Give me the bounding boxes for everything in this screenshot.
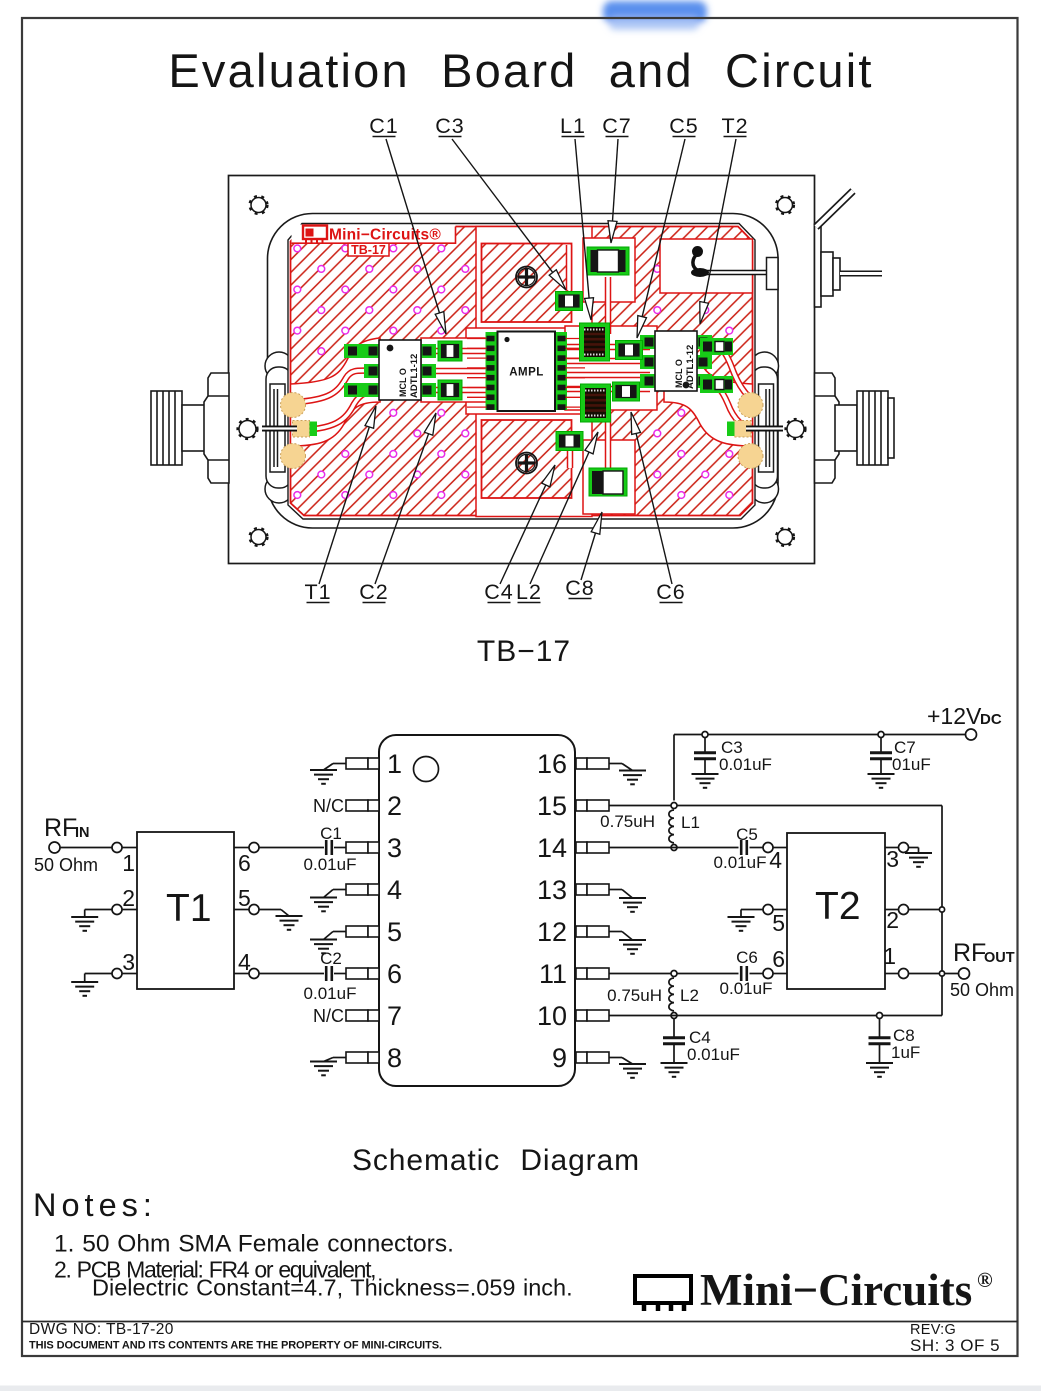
centre pin left	[262, 426, 297, 432]
svg-text:DWG NO: TB-17-20: DWG NO: TB-17-20	[29, 1321, 174, 1338]
wire gnd diag r	[622, 890, 633, 899]
node C3	[702, 732, 708, 738]
wire C6-T2	[750, 973, 763, 975]
svg-text:Dielectric Constant=4.7, Thick: Dielectric Constant=4.7, Thickness=.059 …	[92, 1275, 573, 1301]
svg-text:C1: C1	[320, 824, 342, 843]
svg-text:Mini−Circuits®: Mini−Circuits®	[329, 227, 441, 244]
wire pin gnd stub r	[609, 763, 622, 765]
label L2	[516, 580, 542, 604]
svg-text:C7: C7	[602, 114, 631, 138]
copper pour (hatched)	[291, 227, 753, 516]
trace AMPL-T2 4	[565, 386, 650, 393]
transformer T2	[787, 833, 885, 989]
trace RF out lower	[703, 381, 753, 430]
wire T2 pin3 gnd	[909, 847, 919, 849]
svg-text:C6: C6	[736, 948, 758, 967]
svg-text:3: 3	[387, 833, 402, 863]
ground U1 left	[310, 898, 337, 912]
wire gnd diag	[324, 932, 334, 940]
label C8	[565, 576, 594, 600]
svg-text:01uF: 01uF	[892, 755, 931, 774]
svg-text:Evaluation Board and Circuit: Evaluation Board and Circuit	[168, 44, 873, 97]
capacitor C2	[326, 966, 332, 981]
leader L2	[530, 432, 598, 584]
transformer T1	[137, 832, 234, 989]
screw hole bottom-right	[776, 528, 794, 546]
wire pin15	[609, 805, 942, 807]
svg-text:AMPL: AMPL	[509, 367, 544, 379]
svg-text:1: 1	[122, 850, 135, 876]
trace RF in lower	[295, 390, 380, 430]
svg-text:L1: L1	[560, 114, 586, 138]
pour cutout top-center	[476, 227, 592, 334]
svg-text:C6: C6	[656, 580, 685, 604]
svg-text:T1: T1	[304, 580, 331, 604]
trace C7 feed	[605, 277, 612, 334]
wire gnd diag r	[622, 764, 633, 771]
screw hole bottom-left	[250, 528, 268, 546]
pour cutout around C8	[583, 440, 635, 514]
schematic diagram	[34, 703, 1015, 1086]
svg-text:0.75uH: 0.75uH	[607, 986, 662, 1005]
wire pin10 bus	[609, 1015, 942, 1017]
case outline	[229, 176, 815, 564]
svg-text:RF: RF	[44, 814, 77, 842]
svg-text:4: 4	[387, 875, 402, 905]
T2 pin4 circle	[763, 843, 773, 853]
wire T2 pin1-RFout	[909, 973, 959, 975]
wire gnd drop2	[84, 974, 86, 983]
svg-text:3: 3	[122, 949, 135, 975]
svg-text:DC: DC	[980, 711, 1002, 728]
label C3	[435, 114, 464, 138]
T2 pin5 circle	[763, 905, 773, 915]
capacitor C4	[663, 1019, 685, 1064]
trace AMPL-T2 3	[565, 372, 650, 379]
wire gnd diag r	[622, 932, 633, 941]
leader C3	[452, 139, 566, 290]
milled pocket	[268, 214, 779, 529]
svg-text:3: 3	[886, 846, 899, 872]
amplifier U1 pins	[487, 336, 566, 410]
leader C8	[581, 512, 602, 580]
svg-text:Notes:: Notes:	[33, 1187, 157, 1223]
trace T1 top pad stub	[352, 348, 369, 355]
screw hole top-left	[250, 196, 268, 214]
svg-text:T2: T2	[721, 114, 748, 138]
launch pads right	[727, 393, 763, 469]
wire T2 pin5	[773, 909, 787, 911]
wire gnd drop	[84, 910, 86, 918]
ground U1 right	[619, 771, 646, 785]
mounting screw top	[516, 267, 537, 288]
svg-text:N/C: N/C	[313, 796, 344, 816]
node L1 bottom	[671, 845, 677, 851]
U1 pin numbers	[387, 749, 567, 1073]
capacitor C6 (PCB)	[613, 382, 640, 401]
ground U1 right	[619, 1064, 646, 1078]
ground T2 pin3	[905, 853, 932, 867]
leader T2	[700, 139, 736, 324]
svg-text:Mini−Circuits: Mini−Circuits	[700, 1265, 972, 1315]
capacitor C1 (PCB)	[438, 341, 462, 361]
trace C8 feed	[605, 412, 612, 468]
wire T1 pin2 gnd	[85, 909, 112, 911]
connector flange right	[751, 352, 779, 503]
label T1	[304, 580, 331, 604]
ground C8	[866, 1063, 893, 1077]
svg-text:TB-17: TB-17	[351, 243, 386, 257]
T2 pin1 circle	[899, 969, 909, 979]
node bus pin1	[939, 971, 944, 976]
ground C7	[868, 774, 895, 788]
ground U1 left	[310, 940, 337, 954]
svg-text:0.01uF: 0.01uF	[719, 755, 772, 774]
connector flange left	[265, 352, 293, 503]
mounting screw bottom	[516, 453, 537, 474]
svg-text:TB−17: TB−17	[477, 635, 571, 668]
svg-text:10: 10	[537, 1001, 567, 1031]
wire T1 pin5	[234, 909, 249, 911]
wire T1 pin6	[234, 847, 249, 849]
label C6	[656, 580, 685, 604]
wire T2 pin2	[885, 909, 899, 911]
svg-text:1: 1	[387, 749, 402, 779]
capacitor C5 (PCB)	[616, 341, 643, 360]
screw hole mid-left	[238, 419, 258, 439]
T1 pin6 circle	[249, 843, 259, 853]
screw hole mid-right	[786, 419, 806, 439]
svg-text:C5: C5	[736, 825, 758, 844]
capacitor C3 (PCB)	[556, 292, 583, 311]
Mini-Circuits silkscreen logo	[303, 226, 327, 245]
wire T2 pin3 drop	[918, 848, 920, 854]
svg-text:8: 8	[387, 1043, 402, 1073]
capacitor C2 (PCB)	[438, 380, 462, 400]
screw hole top-right	[776, 196, 794, 214]
svg-text:1. 50 Ohm SMA Female connector: 1. 50 Ohm SMA Female connectors.	[54, 1231, 454, 1258]
ground U1 left	[310, 770, 337, 784]
svg-text:6: 6	[772, 946, 785, 972]
wire T1 pin1	[122, 847, 137, 849]
centre pin right	[746, 426, 783, 432]
node C8	[877, 1013, 883, 1019]
wire gnd diag	[324, 764, 334, 771]
svg-text:15: 15	[537, 791, 567, 821]
node L2 top	[671, 971, 677, 977]
inductor L2 (PCB)	[581, 384, 611, 422]
svg-text:ADTL1-12: ADTL1-12	[409, 354, 420, 398]
T2 pin6 circle	[763, 969, 773, 979]
pad right of T2 lower	[700, 376, 733, 393]
wire T1 pin3 gnd	[85, 973, 112, 975]
svg-text:N/C: N/C	[313, 1006, 344, 1026]
svg-text:2: 2	[886, 907, 899, 933]
bottom bar	[0, 1386, 1041, 1391]
wire T2 gnd drop	[740, 910, 742, 918]
wire gnd diag	[281, 910, 289, 917]
wire gnd diag	[324, 890, 334, 898]
svg-text:C2: C2	[320, 949, 342, 968]
svg-text:Schematic Diagram: Schematic Diagram	[352, 1144, 640, 1177]
ground T2 pin5	[728, 917, 755, 931]
wire pin11-C6	[609, 973, 739, 975]
svg-text:T1: T1	[166, 887, 212, 930]
wire C2-pin6	[334, 973, 346, 975]
wire rail to L1	[673, 735, 675, 801]
launch pads left	[281, 393, 318, 469]
capacitor C5	[741, 840, 747, 855]
DC terminal	[815, 191, 883, 307]
capacitor C3	[694, 738, 716, 775]
Mini-Circuits logo	[635, 1276, 691, 1311]
svg-text:C1: C1	[369, 114, 398, 138]
wire T2 pin3	[885, 847, 899, 849]
pad right of T2 upper	[700, 338, 733, 355]
leader C2	[375, 413, 436, 584]
wire right bus	[941, 806, 943, 1016]
wire pin gnd stub	[333, 931, 346, 933]
svg-text:0.01uF: 0.01uF	[687, 1045, 740, 1064]
wire gnd diag	[324, 1058, 334, 1062]
wire pin gnd stub	[333, 889, 346, 891]
T2 pin3 circle	[899, 843, 909, 853]
svg-text:0.01uF: 0.01uF	[720, 979, 773, 998]
capacitor C7 (PCB)	[587, 247, 629, 275]
svg-text:C4: C4	[484, 580, 513, 604]
ground C4	[661, 1063, 688, 1077]
capacitor C8 (PCB)	[589, 468, 627, 496]
wire pin gnd stub r	[609, 931, 622, 933]
trace T1-AMPL 3	[427, 387, 488, 394]
leader C6	[631, 412, 672, 584]
pad left of T1 upper	[344, 344, 365, 358]
svg-text:ADTL1-12: ADTL1-12	[685, 345, 696, 389]
wire C5-T2	[750, 847, 763, 849]
wire T2 pin1	[885, 973, 899, 975]
pour cutout T2 band	[565, 326, 657, 410]
wire gnd diag r	[622, 1058, 633, 1065]
amplifier U1	[498, 332, 556, 412]
wire T1 pin4	[234, 973, 249, 975]
pour cutout bottom-center	[476, 408, 592, 517]
wire T1-C1	[259, 847, 324, 849]
wire pin gnd stub	[333, 1057, 346, 1059]
blue marker blob	[603, 1, 707, 30]
wire pin gnd stub	[333, 763, 346, 765]
trace RF in upper	[295, 371, 380, 402]
capacitor C8	[869, 1019, 891, 1064]
svg-text:4: 4	[769, 847, 782, 873]
RF in terminal	[49, 842, 60, 853]
inductor L1	[669, 810, 674, 843]
ground C3	[692, 774, 719, 788]
wire T2 pin5 gnd	[741, 909, 763, 911]
trace AMPL-T2 2	[565, 358, 650, 365]
svg-text:C8: C8	[565, 576, 594, 600]
svg-text:0.75uH: 0.75uH	[600, 812, 655, 831]
svg-text:RF: RF	[953, 939, 986, 967]
capacitor C6	[741, 966, 747, 981]
leader C7	[608, 139, 618, 243]
capacitor C4 (PCB)	[556, 432, 583, 451]
wire T2 pin2 bus	[909, 909, 943, 911]
label L1	[560, 114, 586, 138]
trace C3 stub	[566, 245, 573, 290]
svg-text:+12V: +12V	[927, 703, 982, 729]
ground T1 pin2	[71, 917, 98, 931]
ground U1 right	[619, 940, 646, 954]
svg-text:14: 14	[537, 833, 567, 863]
ground U1 left	[310, 1062, 337, 1076]
svg-text:0.01uF: 0.01uF	[304, 984, 357, 1003]
trace T1-AMPL 1	[427, 348, 488, 355]
node L1 top	[671, 803, 677, 809]
pour cutout RF out corridor	[664, 338, 753, 446]
wire T2 pin6	[773, 973, 787, 975]
svg-text:13: 13	[537, 875, 567, 905]
svg-text:®: ®	[977, 1268, 993, 1292]
label C1	[369, 114, 398, 138]
label C2	[359, 580, 388, 604]
T1 pin2	[112, 905, 122, 915]
label C7	[602, 114, 631, 138]
svg-text:C5: C5	[669, 114, 698, 138]
pour cutout AMPL	[466, 328, 586, 414]
vias	[294, 245, 733, 498]
pour cutout around C7	[583, 238, 635, 302]
svg-text:L1: L1	[681, 813, 700, 832]
svg-text:5: 5	[387, 917, 402, 947]
SMA connector J1 (left)	[151, 373, 229, 483]
transformer T1	[364, 340, 436, 400]
trace T2 top pad stub	[702, 339, 712, 346]
wire pin gnd stub r	[609, 889, 622, 891]
wire +12V rail	[674, 734, 966, 736]
leader C4	[500, 465, 555, 584]
svg-text:IN: IN	[75, 825, 90, 841]
label C5	[669, 114, 698, 138]
T1 pin3	[112, 969, 122, 979]
svg-text:7: 7	[387, 1001, 402, 1031]
inductor L1 (PCB)	[580, 323, 610, 361]
amplifier U1 stub traces	[467, 339, 585, 408]
svg-text:C2: C2	[359, 580, 388, 604]
wire T1 pin5 gnd	[259, 909, 281, 911]
svg-text:6: 6	[238, 850, 251, 876]
leader T1	[319, 406, 376, 584]
svg-text:16: 16	[537, 749, 567, 779]
U1 pin pads	[346, 758, 609, 1063]
svg-text:50 Ohm: 50 Ohm	[34, 855, 98, 875]
copper island A	[482, 244, 572, 323]
svg-text:2: 2	[387, 791, 402, 821]
wire T1-C2	[259, 973, 324, 975]
capacitor C1	[326, 840, 332, 855]
T1 pin1	[112, 843, 122, 853]
node bus pin2	[939, 907, 944, 912]
wire pin14-C5	[609, 847, 739, 849]
wire T2 pin4	[773, 847, 787, 849]
node C7	[878, 732, 884, 738]
label C4	[484, 580, 513, 604]
ground T1 pin5	[276, 916, 303, 930]
silkscreen area	[292, 225, 456, 244]
T2 pin2 circle	[899, 905, 909, 915]
amplifier U1 pads	[486, 332, 568, 410]
transformer T2	[640, 331, 712, 391]
svg-text:1uF: 1uF	[891, 1043, 920, 1062]
wire RFin-T1	[60, 847, 112, 849]
T1 pin4 circle	[249, 969, 259, 979]
capacitor C7	[870, 738, 892, 775]
svg-text:6: 6	[387, 959, 402, 989]
svg-text:T2: T2	[815, 885, 861, 928]
wire T1 pin2	[122, 909, 137, 911]
svg-text:L2: L2	[516, 580, 542, 604]
T1 pin5 circle	[249, 905, 259, 915]
svg-text:0.01uF: 0.01uF	[304, 855, 357, 874]
svg-text:11: 11	[539, 959, 567, 989]
pour cutout RF in corridor	[291, 338, 381, 446]
wire T1 pin3	[122, 973, 137, 975]
pour cutout DC feed	[660, 239, 753, 293]
trace AMPL-T2 1	[565, 344, 650, 351]
DC feedthrough pin	[691, 246, 778, 290]
svg-text:L2: L2	[680, 986, 699, 1005]
pour cutout T1 band	[421, 338, 487, 402]
inductor L2	[669, 978, 674, 1011]
ground U1 right	[619, 898, 646, 912]
pad left of T1 lower	[344, 383, 365, 397]
svg-text:50 Ohm: 50 Ohm	[950, 980, 1014, 1000]
svg-text:12: 12	[537, 917, 567, 947]
svg-text:9: 9	[552, 1043, 567, 1073]
label T2	[721, 114, 748, 138]
trace C4 stub	[567, 449, 574, 468]
svg-text:2: 2	[122, 885, 135, 911]
svg-text:5: 5	[772, 910, 785, 936]
RF out terminal	[959, 968, 970, 979]
wire C1-pin3	[334, 847, 346, 849]
+12V terminal	[966, 729, 977, 740]
title block	[22, 1321, 1018, 1355]
leader L1	[575, 139, 594, 320]
node L2 bottom	[671, 1013, 677, 1019]
PCB board edge	[288, 224, 755, 520]
SMA connector J2 (right)	[814, 373, 894, 483]
svg-text:THIS DOCUMENT AND ITS CONTENTS: THIS DOCUMENT AND ITS CONTENTS ARE THE P…	[29, 1340, 442, 1352]
svg-text:1: 1	[883, 943, 896, 969]
svg-text:MCL O: MCL O	[674, 359, 684, 388]
svg-text:MCL O: MCL O	[398, 368, 408, 397]
leader C1	[386, 139, 446, 334]
svg-text:OUT: OUT	[984, 950, 1015, 966]
trace RF out upper	[703, 342, 753, 400]
svg-text:C3: C3	[435, 114, 464, 138]
copper island B	[482, 420, 572, 498]
wire pin gnd stub r	[609, 1057, 622, 1059]
PCB assembly drawing	[151, 114, 894, 604]
ground T1 pin3	[71, 982, 98, 996]
trace T1-AMPL 2	[427, 368, 488, 375]
svg-text:SH: 3 OF 5: SH: 3 OF 5	[910, 1336, 1000, 1355]
leader C5	[637, 139, 685, 338]
op-amp U1 (16-pin IC)	[379, 735, 575, 1086]
svg-text:0.01uF: 0.01uF	[714, 853, 767, 872]
silkscreen TB-17 box	[348, 243, 389, 257]
